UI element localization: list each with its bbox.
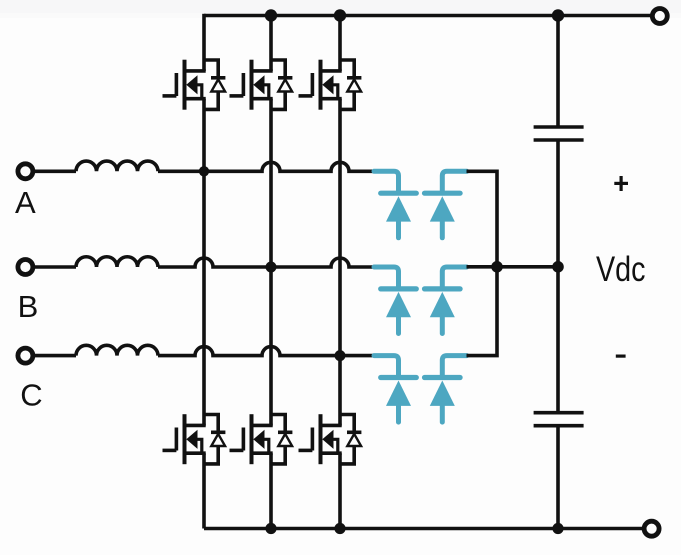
MOSFET Q6 (bottom leg C) [299,414,362,464]
svg-text:B: B [18,289,39,324]
row B output wire to Vdc bus [467,265,559,269]
phase A input wire [34,170,76,174]
inductor phase A [76,161,158,171]
junction Vdc bus mid node [552,261,564,273]
diode D5 (row C left) [374,356,416,423]
diode D4 (row B right) [425,267,467,334]
terminal C [18,348,33,363]
leg B lower source wire [269,453,273,528]
Vdc bus middle wire [556,140,560,413]
bottom-right DC terminal [644,521,659,536]
leg C middle wire [338,99,342,426]
phase B input wire [34,265,76,269]
phase C wire with hops over legs A and B [158,347,375,356]
junction bottom bus leg C [334,523,345,534]
svg-text:A: A [15,185,36,220]
inductor phase B [76,257,158,267]
svg-text:C: C [20,377,42,412]
terminal B [18,260,33,275]
junction bottom bus Vdc [552,523,563,534]
top-right DC terminal [652,9,667,24]
leg B middle wire [269,99,273,426]
leg A upper drain wire [202,14,206,71]
Vdc bus upper wire [556,16,560,128]
label minus [616,355,626,358]
MOSFET Q2 (top leg B) [230,60,293,110]
phase C input wire [34,354,76,358]
row C output wire [467,267,498,356]
junction diode bridge node [491,261,503,273]
inductor phase C [76,345,158,355]
capacitor C1 [534,127,584,140]
junction phase A to leg A [199,166,209,176]
diode D3 (row B left) [374,267,416,334]
Vdc bus lower wire [556,426,560,529]
diode D6 (row C right) [425,356,467,423]
top DC bus wire [204,14,651,18]
MOSFET Q1 (top leg A) [163,60,226,110]
svg-text:Vdc: Vdc [596,250,646,289]
diode D2 (row A right) [425,171,467,238]
terminal A [18,164,33,179]
phase B wire with hops over legs A and C [158,258,375,267]
phase A wire with hops over legs B and C [158,162,375,171]
leg A middle wire [202,99,206,426]
diode D1 (row A left) [374,171,416,238]
leg A lower source wire [202,453,206,528]
leg B upper drain wire [269,16,273,72]
MOSFET Q4 (bottom leg A) [163,414,226,464]
capacitor C2 [534,413,584,426]
junction top bus Vdc [552,9,564,21]
leg C lower source wire [338,453,342,528]
row A output wire [467,171,498,266]
junction top bus leg C [334,9,346,21]
junction phase C to leg C [335,350,346,361]
bottom DC bus wire [204,527,644,531]
MOSFET Q5 (bottom leg B) [230,414,293,464]
leg C upper drain wire [338,16,342,72]
junction phase B to leg B [266,262,277,273]
junction top bus leg B [265,9,277,21]
junction bottom bus leg B [265,523,276,534]
MOSFET Q3 (top leg C) [299,60,362,110]
label plus [614,176,628,191]
